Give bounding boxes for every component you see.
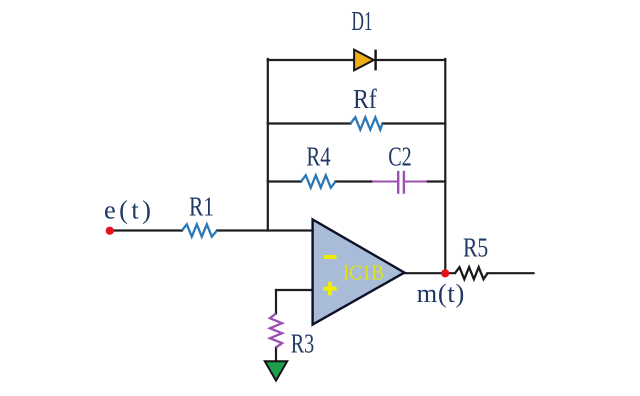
svg-text:e(t): e(t) bbox=[104, 195, 154, 225]
svg-text:m(t): m(t) bbox=[417, 278, 465, 308]
svg-text:R1: R1 bbox=[189, 191, 214, 221]
svg-text:Rf: Rf bbox=[353, 84, 377, 114]
svg-text:R4: R4 bbox=[306, 142, 331, 172]
svg-text:R3: R3 bbox=[291, 328, 315, 358]
svg-text:C2: C2 bbox=[388, 142, 412, 172]
svg-text:IC1B: IC1B bbox=[343, 261, 384, 285]
svg-text:D1: D1 bbox=[352, 6, 373, 36]
svg-text:R5: R5 bbox=[463, 233, 488, 263]
